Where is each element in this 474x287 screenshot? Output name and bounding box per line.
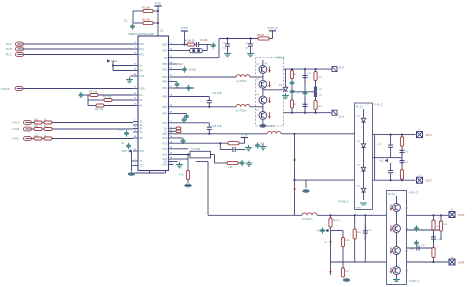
junction col3 top — [314, 68, 316, 70]
svg-text:+VL: +VL — [379, 159, 384, 163]
ground C17 — [245, 145, 252, 150]
pin VS (right) — [164, 160, 174, 164]
label P-RL_C2 — [409, 193, 419, 195]
pin PA1 (left) — [133, 47, 145, 51]
junction XTAL — [112, 64, 114, 66]
pin T2 (left) — [133, 164, 143, 168]
connector SL-P — [332, 67, 344, 72]
wire X1 cap branch — [187, 155, 189, 171]
svg-text:VDD: VDD — [140, 88, 145, 91]
wire filter col2 — [304, 69, 306, 113]
output connector P1 — [417, 132, 423, 138]
label D1 — [279, 85, 283, 87]
pin V5 (right) — [164, 56, 173, 60]
capacitor C29 — [400, 148, 405, 156]
svg-text:P-RL_C2: P-RL_C2 — [409, 193, 419, 195]
label net PC-C — [6, 54, 12, 57]
net label RST — [122, 149, 132, 153]
capacitor C10 — [174, 81, 179, 87]
pin S1 (left) — [133, 120, 143, 124]
label R11 value — [44, 135, 47, 137]
resistor R19 — [290, 71, 293, 79]
wire R16 to power — [239, 142, 245, 144]
svg-text:L2 470uH: L2 470uH — [236, 110, 247, 113]
label L1 value — [236, 80, 247, 83]
resistor R16 — [228, 142, 239, 145]
junction R23 — [401, 134, 403, 136]
pin PC0 (right) — [162, 121, 173, 125]
label C32 value — [368, 230, 373, 232]
capacitor C15 — [207, 123, 212, 134]
junction X1 left — [187, 153, 189, 155]
label OUT4 — [458, 262, 465, 265]
svg-text:OS1: OS1 — [162, 154, 167, 157]
capacitor C23 — [302, 90, 307, 96]
wire R5 to U1 — [104, 105, 133, 107]
svg-text:PC-B: PC-B — [6, 48, 12, 51]
label C33 value — [410, 249, 415, 251]
label P3 — [451, 210, 454, 212]
zener D8 — [329, 238, 332, 244]
pin PC2 (right) — [162, 136, 173, 140]
resistor R10 — [34, 137, 42, 140]
label C8 val2 — [245, 48, 249, 50]
capacitor C28 — [388, 163, 393, 180]
resistor R29 — [432, 220, 435, 230]
label Q8 — [405, 271, 409, 273]
capacitor C27 — [388, 135, 393, 158]
diode mark Q7 — [390, 248, 393, 254]
label R18 value — [228, 167, 233, 169]
transistor Q6 — [393, 225, 401, 233]
driver box U3 — [387, 191, 407, 285]
pin AVD (right) — [162, 49, 173, 53]
resistor R23 — [400, 137, 403, 147]
transistor Q4 — [259, 112, 267, 120]
wire PB6 to L2 — [174, 106, 237, 108]
wire feed column — [294, 134, 296, 216]
label P4 — [451, 257, 454, 259]
diode D1 — [283, 87, 287, 91]
transistor Q2 — [259, 80, 267, 88]
ground X1 — [184, 184, 191, 188]
capacitor C26 — [314, 92, 316, 97]
label L5 value — [302, 218, 313, 221]
wire bottom bus left — [208, 214, 302, 216]
pin RST (left) — [133, 149, 145, 153]
label R19 value — [292, 74, 297, 76]
label R21 value — [318, 77, 323, 79]
capacitor C12 — [207, 97, 212, 107]
svg-text:L5 100uH: L5 100uH — [302, 218, 313, 221]
wire array mid tap — [263, 89, 284, 91]
label R22 value — [318, 106, 323, 108]
wire R1 to VCC — [153, 10, 158, 12]
resistor R15 — [176, 130, 181, 133]
label L2 value — [236, 110, 247, 113]
wire R10 to R11 — [42, 138, 44, 140]
inductor L4 — [267, 131, 281, 133]
ground C7 — [224, 51, 231, 56]
svg-text:XTAL: XTAL — [111, 59, 118, 63]
svg-text:X1 4.9M: X1 4.9M — [191, 148, 200, 151]
capacitor C21 — [289, 88, 294, 94]
wire VDD row — [174, 44, 188, 46]
wire J6 to R8 — [32, 128, 35, 130]
label C34 — [437, 239, 442, 241]
label R25 value — [333, 220, 341, 222]
capacitor C3 — [124, 130, 129, 136]
ground array — [260, 124, 267, 128]
wire OS1 to X1 — [174, 154, 191, 156]
wire L1 to Q-array — [250, 76, 263, 78]
label C29 — [405, 152, 410, 154]
label R8 value — [34, 126, 39, 128]
svg-text:PA2: PA2 — [140, 54, 145, 57]
junction col3 bot — [314, 112, 316, 114]
pin PC3 (right) — [162, 141, 173, 145]
pin PB7 (right) — [162, 112, 173, 116]
svg-text:C9 10u: C9 10u — [189, 70, 197, 72]
connector SL-N — [332, 110, 344, 118]
label Q1 designator — [265, 63, 269, 65]
connector J5 — [24, 121, 32, 125]
capacitor C13 — [184, 113, 189, 119]
diode D7 — [293, 185, 296, 191]
wire R7 to U1 — [52, 122, 133, 124]
junction PC3 — [219, 142, 221, 144]
label Q7 — [405, 251, 409, 253]
capacitor C32 — [363, 224, 368, 240]
ferrite bead FB1 — [190, 48, 203, 52]
capacitor C18 — [255, 142, 260, 148]
wire top rail — [219, 38, 273, 40]
wire PB5 row — [174, 96, 210, 98]
svg-text:P-5V-IN: P-5V-IN — [1, 88, 10, 91]
wire col2 lower — [342, 262, 344, 269]
svg-text:XI: XI — [140, 65, 143, 68]
label net PC-A — [6, 43, 12, 46]
pin K2 (left) — [133, 104, 143, 108]
svg-text:P-GND: P-GND — [267, 126, 275, 128]
svg-text:PC-A: PC-A — [6, 43, 12, 46]
ground C19 — [246, 161, 253, 166]
svg-text:VSS: VSS — [140, 75, 145, 78]
pin D- (right) — [164, 130, 173, 134]
svg-text:C12 470p: C12 470p — [212, 93, 223, 95]
pin PA2 (left) — [133, 53, 145, 57]
svg-text:PB5: PB5 — [162, 96, 167, 99]
pin PA0 (left) — [133, 42, 145, 46]
label R27 value — [346, 271, 351, 273]
wire R11 to U1 — [52, 138, 133, 140]
power flag P-3V — [241, 133, 248, 144]
resistor R14 — [176, 127, 181, 130]
inductor L2 — [236, 104, 250, 106]
pin PB1 (right) — [162, 68, 173, 72]
wire FB1 out — [203, 50, 208, 52]
junction R24 — [401, 179, 403, 181]
label D2 — [357, 116, 361, 118]
resistor R20 — [290, 100, 293, 108]
svg-text:RL-C2: RL-C2 — [388, 194, 395, 196]
label C4 — [121, 143, 125, 145]
svg-text:SL-N: SL-N — [339, 116, 345, 119]
pin GND1 (bottom) — [149, 171, 151, 174]
label D5 — [357, 186, 361, 188]
pin VSS (left) — [133, 74, 145, 78]
output connector P3 — [449, 212, 455, 218]
capacitor C14 — [181, 117, 186, 123]
wire R1 top — [133, 10, 143, 12]
capacitor C31 — [320, 227, 325, 233]
wire C2 to R3 — [84, 94, 91, 96]
svg-text:PC3: PC3 — [162, 142, 167, 145]
diode mark Q8 — [390, 268, 393, 274]
label R29 — [437, 226, 442, 228]
wire PC-A to U1 — [24, 43, 134, 45]
wire riser to top rail — [218, 39, 220, 58]
svg-text:PC2: PC2 — [162, 137, 167, 140]
pin K1 (left) — [133, 98, 143, 102]
svg-text:OUT4: OUT4 — [458, 262, 465, 265]
label P-GND_A — [338, 201, 349, 204]
wire to U2 low — [295, 179, 355, 181]
label R31 value — [444, 224, 449, 226]
wire R4 to U1 — [112, 99, 133, 101]
wire out col2 — [401, 135, 403, 181]
resistor R25 — [329, 218, 332, 227]
capacitor C36 — [414, 240, 419, 246]
label C9 value — [189, 70, 197, 72]
connector J4 — [15, 87, 23, 91]
label R3 value — [89, 91, 98, 94]
label U1 name — [128, 32, 155, 36]
label OUT2 — [426, 180, 433, 183]
label D8 — [324, 242, 328, 244]
wire U3 internal — [396, 196, 398, 281]
wire R18 out — [238, 162, 240, 164]
wire filter col1 — [291, 69, 293, 113]
ground VSS — [126, 77, 133, 82]
resistor R8 — [34, 128, 42, 131]
resistor R26 — [341, 238, 344, 247]
wire out col0 — [374, 135, 376, 181]
svg-text:GND: GND — [356, 207, 361, 209]
pin S5 (left) — [133, 136, 143, 140]
svg-text:L-IN-A: L-IN-A — [12, 122, 20, 125]
resistor R22 — [314, 101, 317, 110]
pin OS2 (right) — [162, 157, 173, 161]
capacitor C16 — [180, 138, 185, 144]
label P-RL_C — [375, 104, 384, 107]
resistor R3 — [90, 94, 98, 97]
resistor R4 — [104, 99, 112, 102]
power flag VCC P-5V — [155, 1, 162, 36]
pin PB6 (right) — [162, 105, 173, 109]
wire C5 to C6 — [199, 44, 211, 46]
label Q1 — [256, 63, 260, 65]
label L3 value — [185, 40, 195, 43]
wire J5 to R6 — [32, 122, 35, 124]
IC U1 timer controller — [138, 36, 169, 171]
diode mark Q6 — [390, 226, 393, 232]
wire L2 to Q-array — [250, 106, 263, 108]
label R12 value — [257, 35, 265, 37]
junction VCC/R1 — [157, 10, 159, 12]
capacitor C20 — [289, 80, 294, 86]
label C36 value — [421, 245, 426, 247]
resistor R27 — [341, 268, 344, 277]
capacitor C24 — [303, 98, 308, 113]
wire V5 row — [174, 57, 220, 59]
wire osc to feed — [196, 161, 208, 163]
label Q5 — [405, 208, 409, 210]
pin PB4 (right) — [162, 86, 173, 90]
svg-text:PC0: PC0 — [162, 122, 167, 125]
pin S3 (left) — [133, 127, 143, 131]
pin S2 (left) — [133, 123, 143, 127]
wire PB3 stub — [174, 81, 177, 83]
wire PC3 row — [174, 142, 229, 144]
resistor R17 — [186, 171, 189, 180]
transistor Q7 — [393, 247, 401, 255]
svg-text:OUT1: OUT1 — [426, 134, 433, 137]
wire PC-B to U1 — [24, 48, 134, 50]
wire P-5V-IN to U1 — [23, 88, 133, 90]
wire filter mid tap — [292, 91, 316, 93]
resistor R6 — [34, 121, 42, 124]
ground U3 — [393, 280, 400, 282]
junction C12/PB6 — [208, 106, 210, 108]
wire feed down — [207, 162, 209, 216]
wire OUT2 row — [373, 179, 416, 181]
wire PB2 to L1 — [174, 76, 237, 78]
label Q3 — [256, 94, 260, 96]
crystal X1 — [190, 148, 211, 158]
transistor Q5 — [393, 204, 401, 212]
pin PB5 (right) — [162, 95, 173, 99]
capacitor C30 — [400, 158, 405, 166]
junction C28 — [390, 179, 392, 181]
pin PB0 (right) — [162, 62, 173, 66]
label R4 value — [103, 96, 112, 99]
wire R15 stub — [174, 130, 177, 132]
wire left leg — [132, 11, 134, 23]
junction col1 top — [291, 68, 293, 70]
transistor Q3 — [259, 96, 267, 104]
svg-text:P-GND_A: P-GND_A — [338, 201, 349, 204]
diode D6 — [293, 156, 296, 162]
label C8 — [245, 43, 249, 45]
label Q2 — [256, 78, 260, 80]
pin K0 (left) — [133, 93, 143, 97]
junction bus/R31 — [440, 214, 442, 216]
capacitor C7 — [225, 39, 230, 52]
svg-text:RST: RST — [140, 150, 145, 153]
label C30 — [405, 162, 410, 164]
wire analog col2 — [342, 231, 344, 263]
diode D5 — [361, 188, 365, 192]
label net L-IN-C — [12, 138, 20, 141]
wire X1 right — [211, 154, 215, 156]
resistor R30 — [432, 248, 435, 258]
svg-text:PB7: PB7 — [162, 113, 167, 116]
resistor R24 — [400, 170, 403, 180]
junction bus/R29 — [432, 214, 434, 216]
svg-text:PB3: PB3 — [162, 81, 167, 84]
wire R3 to U1 — [98, 94, 133, 96]
capacitor C22 — [303, 69, 308, 84]
opto relay box U2 — [355, 103, 373, 210]
output connector P4 — [449, 259, 455, 265]
ground U2 — [356, 203, 367, 209]
svg-text:PB4: PB4 — [162, 87, 167, 90]
wire R8 to R9 — [42, 128, 44, 130]
wire XTAL vertical — [112, 61, 114, 71]
wire to R4 — [88, 99, 104, 101]
ground D1 — [282, 93, 289, 98]
transistor Q8 — [393, 267, 401, 275]
wire to C17 — [220, 149, 232, 151]
driver array dashed box — [256, 58, 284, 127]
svg-text:TIMER CONTROLLER: TIMER CONTROLLER — [128, 32, 155, 36]
resistor R21 — [314, 72, 317, 81]
svg-text:R3 1.5k: R3 1.5k — [89, 91, 98, 94]
connector J3 — [16, 53, 24, 57]
label R26 value — [346, 240, 351, 242]
capacitor C19 — [239, 160, 244, 166]
wire D1 branch — [285, 69, 287, 88]
diode D4 — [361, 167, 365, 171]
junction Q6/R29 — [432, 229, 434, 231]
wire to pin XO — [113, 70, 133, 72]
ground C8 — [247, 51, 254, 56]
pin T1 (left) — [133, 159, 143, 163]
label OUT1 — [426, 134, 433, 137]
junction C8 — [249, 37, 251, 39]
svg-text:PB0: PB0 — [162, 63, 167, 66]
transistor Q1 — [259, 66, 267, 74]
label C23 polarity — [298, 92, 300, 95]
label P-OUT_A — [410, 280, 420, 283]
pin PC5 (right) — [162, 163, 173, 167]
label net P-5V-IN — [1, 88, 10, 91]
capacitor C4 — [126, 143, 131, 149]
wire R2 to VCC — [153, 22, 158, 24]
label P-5V_D net — [277, 57, 286, 60]
wire R14 stub — [174, 127, 177, 129]
wire PB7 stub — [174, 113, 187, 115]
wire OS2 row — [174, 158, 189, 160]
capacitor C1 — [130, 23, 135, 29]
svg-text:P-OUT_A: P-OUT_A — [410, 280, 420, 283]
net label XTAL — [107, 59, 118, 63]
junction feed low — [293, 179, 295, 181]
wire analog col4 — [364, 215, 366, 262]
wire bottom bus right — [317, 214, 449, 216]
capacitor C6 — [211, 42, 216, 48]
svg-text:C5 104: C5 104 — [200, 40, 208, 42]
connector J1 — [16, 42, 24, 46]
label C1 — [124, 20, 128, 23]
wire PB4 row — [174, 87, 195, 89]
diode D2 — [361, 118, 365, 122]
label R5 value — [95, 108, 104, 111]
wire to pin XI — [113, 65, 133, 67]
power flag P-5V right — [181, 26, 188, 45]
net label +5V_A — [316, 229, 328, 233]
